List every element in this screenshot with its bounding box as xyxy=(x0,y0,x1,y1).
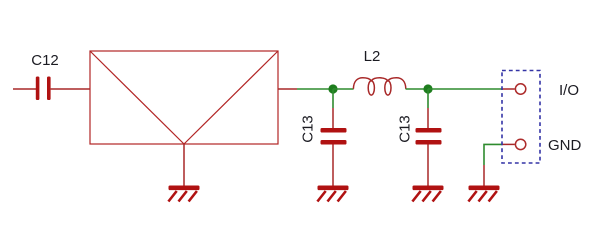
node xyxy=(423,84,432,93)
wire xyxy=(332,89,334,108)
wire xyxy=(278,88,297,90)
wire xyxy=(427,108,429,128)
connector J1 xyxy=(502,71,540,164)
wire xyxy=(484,144,502,165)
wire xyxy=(332,108,334,128)
ground xyxy=(468,186,499,202)
svg-text:GND: GND xyxy=(548,137,582,154)
wire xyxy=(502,88,515,90)
wire xyxy=(13,88,36,90)
wire xyxy=(406,88,428,90)
ground xyxy=(317,186,348,202)
wire xyxy=(297,88,333,90)
pin I/O xyxy=(515,82,579,99)
wire xyxy=(183,144,185,186)
svg-text:I/O: I/O xyxy=(559,82,579,99)
capacitor C13 (second) xyxy=(397,115,442,144)
node xyxy=(328,84,337,93)
wire xyxy=(332,145,334,187)
svg-text:L2: L2 xyxy=(364,48,381,65)
wire xyxy=(502,143,515,145)
wire xyxy=(427,89,429,108)
wire xyxy=(333,88,354,90)
wire xyxy=(428,88,502,90)
svg-text:C13: C13 xyxy=(300,115,317,143)
wire xyxy=(51,88,90,90)
ground xyxy=(168,186,199,202)
svg-text:C13: C13 xyxy=(397,115,414,143)
pin GND xyxy=(515,137,581,154)
component block (SAW filter) xyxy=(90,51,278,144)
wire xyxy=(483,165,485,186)
capacitor C13 xyxy=(300,115,347,144)
svg-text:C12: C12 xyxy=(31,52,59,69)
wire xyxy=(427,145,429,187)
inductor L2 xyxy=(353,48,405,95)
ground xyxy=(412,186,443,202)
capacitor C12 xyxy=(31,52,59,100)
